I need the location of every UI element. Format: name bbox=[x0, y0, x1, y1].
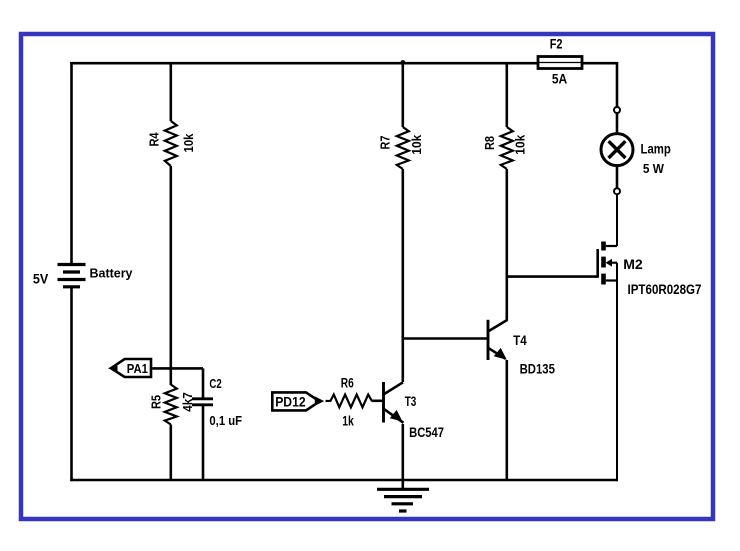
svg-text:PA1: PA1 bbox=[127, 361, 148, 376]
wire PA1 to C2 bbox=[152, 367, 203, 370]
tag PA1 bbox=[108, 359, 151, 377]
wire terminal to M2 drain bbox=[616, 194, 618, 246]
svg-text:R5: R5 bbox=[149, 395, 164, 409]
svg-text:R6: R6 bbox=[341, 376, 354, 391]
transistor T4 bbox=[488, 320, 508, 360]
wire R7 top lead bbox=[401, 62, 404, 127]
svg-text:Battery: Battery bbox=[90, 265, 134, 280]
svg-text:10k: 10k bbox=[181, 133, 196, 153]
battery B1 bbox=[58, 265, 86, 287]
wire right vertical to lamp bbox=[616, 62, 619, 107]
wire R5 bottom lead bbox=[170, 425, 173, 481]
wire top rail right of fuse bbox=[582, 62, 618, 65]
svg-text:M2: M2 bbox=[623, 256, 643, 272]
svg-text:T4: T4 bbox=[513, 332, 527, 348]
wire left vertical upper (battery +) bbox=[70, 62, 73, 264]
svg-text:10k: 10k bbox=[513, 134, 528, 155]
junction dot R7/top rail bbox=[400, 60, 405, 65]
wire C2 top lead bbox=[202, 368, 205, 397]
svg-text:R4: R4 bbox=[147, 132, 162, 147]
lamp bbox=[601, 134, 633, 166]
svg-text:R7: R7 bbox=[378, 136, 393, 150]
lamp terminal top bbox=[614, 107, 620, 113]
svg-text:BD135: BD135 bbox=[520, 361, 555, 377]
svg-text:5V: 5V bbox=[33, 272, 48, 287]
resistor R4 bbox=[165, 121, 177, 166]
wire C2 bottom lead bbox=[202, 405, 205, 480]
svg-text:10k: 10k bbox=[409, 134, 424, 155]
lamp terminal bottom bbox=[614, 188, 620, 194]
svg-text:Lamp: Lamp bbox=[641, 141, 671, 156]
resistor R8 bbox=[501, 127, 513, 169]
wire T4 emitter to bottom rail bbox=[505, 360, 508, 480]
tag PD12 bbox=[272, 392, 324, 410]
wire T4 base bbox=[403, 337, 488, 340]
svg-text:F2: F2 bbox=[550, 36, 563, 52]
svg-text:T3: T3 bbox=[405, 393, 417, 409]
wire left vertical lower (battery -) bbox=[70, 287, 73, 481]
ground bbox=[377, 489, 429, 511]
wire terminal to lamp bbox=[616, 113, 619, 133]
transistor T3 bbox=[384, 382, 404, 423]
svg-text:0,1 uF: 0,1 uF bbox=[209, 413, 242, 428]
wire R4 to R5 bbox=[170, 166, 173, 385]
svg-text:4k7: 4k7 bbox=[180, 392, 195, 412]
wire R4 top lead bbox=[170, 62, 173, 121]
wire R8 to T4 collector bbox=[505, 169, 508, 320]
wire bottom rail bbox=[70, 479, 618, 482]
svg-text:R8: R8 bbox=[482, 136, 497, 150]
wire R8 top lead bbox=[505, 62, 508, 127]
wire R6 to T3 base bbox=[372, 399, 384, 402]
svg-text:BC547: BC547 bbox=[409, 424, 444, 440]
svg-text:5A: 5A bbox=[552, 71, 567, 87]
svg-text:C2: C2 bbox=[209, 376, 221, 391]
fuse F2 bbox=[538, 57, 582, 69]
svg-text:IPT60R028G7: IPT60R028G7 bbox=[628, 281, 702, 297]
wire top rail left of fuse bbox=[70, 62, 538, 65]
wire lamp to terminal bbox=[616, 166, 619, 188]
capacitor C2 bbox=[192, 399, 213, 405]
resistor R7 bbox=[397, 127, 409, 169]
resistor R6 bbox=[326, 395, 372, 408]
svg-text:PD12: PD12 bbox=[275, 393, 306, 409]
svg-text:1k: 1k bbox=[342, 414, 354, 429]
wire M2 gate bbox=[507, 275, 598, 278]
svg-text:5 W: 5 W bbox=[643, 161, 665, 176]
wire T3 emitter to ground bbox=[401, 424, 404, 489]
wire M2 source to bottom rail bbox=[616, 263, 618, 482]
MOSFET M2 bbox=[598, 242, 617, 285]
wire R7 to T3 collector bbox=[401, 169, 404, 382]
resistor R5 bbox=[165, 385, 177, 425]
